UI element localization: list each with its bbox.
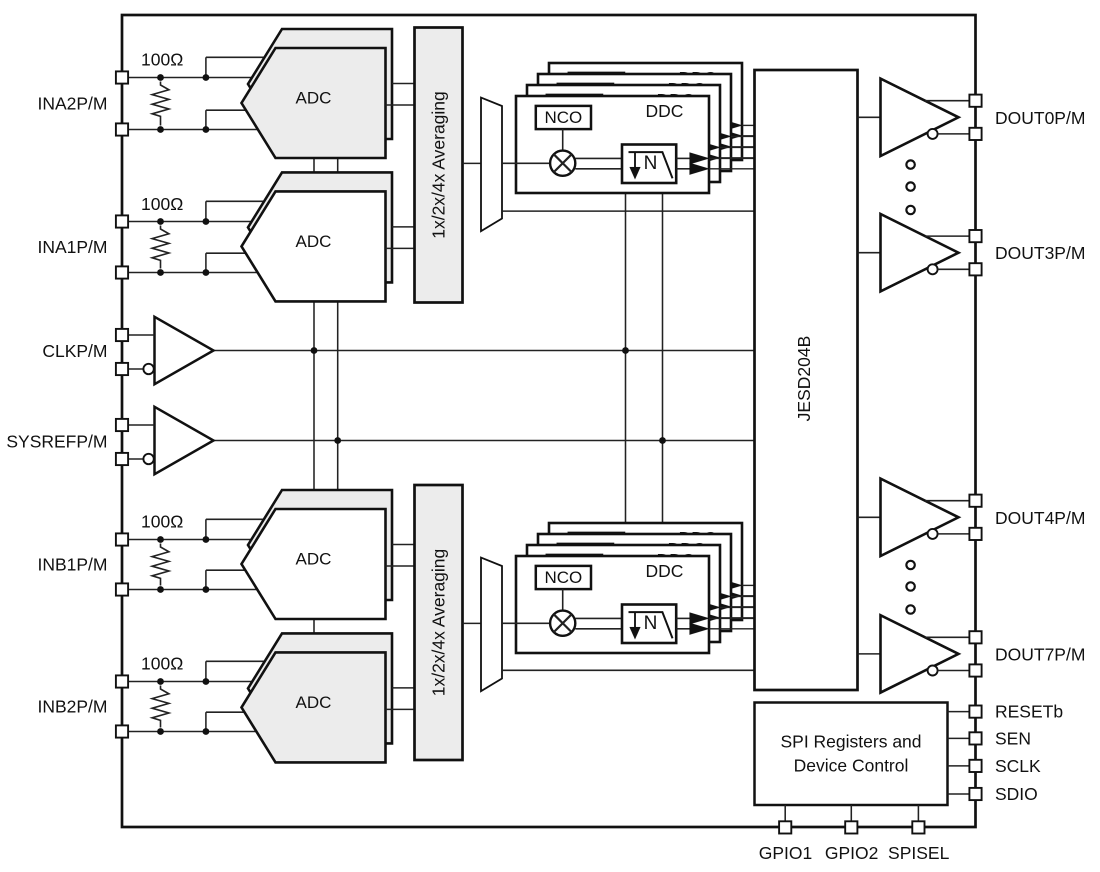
wire JESD204B to driver DOUT7: [858, 653, 881, 655]
ADC B2 interleaved (back card): [248, 633, 392, 743]
net label GPIO1: [759, 843, 813, 863]
wire ADC A1 back output to averaging: [392, 83, 415, 85]
ADC A1 (front card): [242, 48, 386, 158]
svg-text:DDC: DDC: [646, 101, 684, 121]
wire INA1M branch to interleaved ADC: [206, 253, 250, 272]
net label SEN: [995, 728, 1031, 748]
SPI registers and device control block: [755, 703, 948, 806]
wire INB1M branch to interleaved ADC: [206, 570, 250, 589]
driver DOUT3: [881, 214, 959, 291]
wire JESD204B to driver DOUT3: [858, 252, 881, 254]
wire INB1P branch to interleaved ADC: [206, 519, 266, 539]
wire ADC B1 front output to averaging: [386, 565, 415, 567]
pin INB1P: [116, 533, 128, 545]
value label 100Ω INB1: [141, 512, 183, 532]
svg-text:GPIO2: GPIO2: [825, 843, 879, 863]
svg-text:INA2P/M: INA2P/M: [37, 94, 107, 114]
svg-text:100Ω: 100Ω: [141, 654, 183, 674]
net label DOUT0P/M: [995, 108, 1085, 128]
svg-text:SDIO: SDIO: [995, 784, 1038, 804]
svg-text:RESETb: RESETb: [995, 702, 1063, 722]
inversion bubble SYSREFM: [143, 454, 153, 464]
wire JESD204B to driver DOUT4: [858, 516, 881, 518]
svg-text:1x/2x/4x Averaging: 1x/2x/4x Averaging: [429, 549, 449, 697]
pin SEN: [969, 732, 981, 744]
wire INB1M input: [122, 589, 266, 591]
wire SPISEL: [917, 805, 919, 821]
svg-text:1x/2x/4x Averaging: 1x/2x/4x Averaging: [429, 91, 449, 239]
net label SYSREFP/M: [6, 431, 107, 451]
resistor 100Ω INB2 termination: [152, 686, 169, 728]
pin INA1M: [116, 266, 128, 278]
svg-text:INA1P/M: INA1P/M: [37, 237, 107, 257]
net label CLKP/M: [42, 341, 107, 361]
junction dot INA2P at branch: [203, 74, 210, 81]
DDC A channel 2 card: [538, 74, 755, 171]
net label DOUT4P/M: [995, 508, 1085, 528]
buffer SYSREF: [155, 407, 214, 474]
DDC B channel 3 card: [527, 545, 755, 642]
wire DOUT3P output: [925, 235, 970, 237]
junction dot INA2M at branch: [203, 126, 210, 133]
DDC B channel 4 card: [502, 556, 755, 653]
junction dot CLK x=625.5: [622, 347, 629, 354]
wire ADC A2 back output to averaging: [392, 226, 415, 228]
wire ADC A1 front output to averaging: [386, 104, 415, 106]
svg-text:ADC: ADC: [296, 550, 332, 569]
wire CLKM input: [122, 368, 143, 370]
svg-text:ADC: ADC: [296, 89, 332, 108]
junction dot INB2M at branch: [203, 728, 210, 735]
net label INA1P/M: [37, 237, 107, 257]
wire mux A bypass to JESD204B: [502, 210, 755, 212]
pin CLKM: [116, 363, 128, 375]
pin RESETb: [969, 706, 981, 718]
wire ADC A2 front output to averaging: [386, 247, 415, 249]
net label DOUT7P/M: [995, 644, 1085, 664]
pin SYSREFP: [116, 419, 128, 431]
svg-text:GPIO1: GPIO1: [759, 843, 813, 863]
ADC A2 (front card): [242, 191, 386, 301]
pin DOUT7M: [969, 664, 981, 676]
wire DOUT0M output: [937, 133, 969, 135]
net label RESETb: [995, 702, 1063, 722]
DDC A channel 4 card: [502, 96, 755, 193]
svg-text:SPISEL: SPISEL: [888, 843, 950, 863]
inversion bubble CLKM: [143, 364, 153, 374]
junction dot INA1M at branch: [203, 269, 210, 276]
ADC A2 interleaved (back card): [248, 172, 392, 282]
svg-text:ADC: ADC: [296, 693, 332, 712]
ellipsis dots DOUT0-DOUT3: [906, 160, 914, 214]
wire GPIO2: [850, 805, 852, 821]
wire CLK feed vertical x=314 (ADCA1-ADCA2 gap): [313, 157, 315, 174]
pin SDIO: [969, 788, 981, 800]
wire INA1P input: [122, 221, 266, 223]
wire SYSREF net horizontal: [214, 440, 755, 442]
wire INA1M input: [122, 272, 266, 274]
wire ADC B2 front output to averaging: [386, 708, 415, 710]
net label INA2P/M: [37, 94, 107, 114]
svg-text:SPI Registers and: SPI Registers and: [780, 732, 921, 752]
svg-text:DOUT7P/M: DOUT7P/M: [995, 644, 1085, 664]
DDC B channel 1 card: [549, 523, 755, 620]
junction dot INB1M at resistor: [157, 586, 164, 593]
pin DOUT3M: [969, 263, 981, 275]
averaging block B: [415, 485, 463, 760]
inversion bubble DOUT0M: [928, 129, 938, 139]
svg-text:DOUT3P/M: DOUT3P/M: [995, 243, 1085, 263]
svg-text:100Ω: 100Ω: [141, 194, 183, 214]
wire DOUT7P output: [925, 636, 970, 638]
wire CLKP input: [122, 334, 155, 336]
svg-text:NCO: NCO: [545, 568, 583, 587]
junction dot INA2M at resistor: [157, 126, 164, 133]
net label GPIO2: [825, 843, 879, 863]
wire RESETb: [948, 711, 970, 713]
junction dot SYSREF x=337.7: [334, 437, 341, 444]
wire INB2M branch to interleaved ADC: [206, 712, 250, 731]
inversion bubble DOUT7M: [928, 666, 938, 676]
svg-text:DOUT4P/M: DOUT4P/M: [995, 508, 1085, 528]
wire INA2M input: [122, 129, 266, 131]
driver DOUT7: [881, 615, 959, 692]
wire INB2P input: [122, 681, 266, 683]
junction dot INB1P at branch: [203, 536, 210, 543]
ADC A1 interleaved (back card): [248, 29, 392, 139]
pin DOUT0M: [969, 128, 981, 140]
wire DOUT4P output: [925, 500, 970, 502]
net label SCLK: [995, 756, 1041, 776]
wire DOUT7M output: [937, 670, 969, 672]
junction dot CLK x=314: [311, 347, 318, 354]
ellipsis dots DOUT4-DOUT7: [906, 561, 914, 614]
pin GPIO2: [845, 821, 857, 833]
ADC B1 interleaved (back card): [248, 490, 392, 600]
wire CLK feed vertical x=314 (ADCB1-ADCB2 gap): [313, 618, 315, 635]
wire SDIO: [948, 793, 970, 795]
wire DOUT0P output: [925, 100, 970, 102]
wire INA2P input: [122, 77, 266, 79]
svg-text:SYSREFP/M: SYSREFP/M: [6, 431, 107, 451]
JESD204B block U-JESD: [755, 70, 858, 690]
wire INB1P input: [122, 539, 266, 541]
pin INA2M: [116, 123, 128, 135]
junction dot INB2P at resistor: [157, 678, 164, 685]
junction dot INA1P at resistor: [157, 218, 164, 225]
svg-text:DDC: DDC: [646, 561, 684, 581]
junction dot SYSREF x=662.5: [659, 437, 666, 444]
wire CLK feed vertical x=337.7 (ADCA1-ADCA2 gap): [337, 157, 339, 174]
wire INB2M input: [122, 731, 266, 733]
buffer CLK: [155, 317, 214, 384]
net label INB2P/M: [37, 697, 107, 717]
value label 100Ω INA2: [141, 50, 183, 70]
pin SCLK: [969, 760, 981, 772]
mux B: [481, 558, 502, 692]
pin INB2P: [116, 675, 128, 687]
mux A: [481, 98, 502, 232]
wire SYSREFP input: [122, 424, 155, 426]
pin INB2M: [116, 725, 128, 737]
wire averaging A to mux: [463, 162, 482, 164]
pin INB1M: [116, 583, 128, 595]
svg-text:SEN: SEN: [995, 728, 1031, 748]
junction dot INA1P at branch: [203, 218, 210, 225]
pin DOUT0P: [969, 95, 981, 107]
wire ADC B1 back output to averaging: [392, 544, 415, 546]
inversion bubble DOUT4M: [928, 529, 938, 539]
junction dot INA2P at resistor: [157, 74, 164, 81]
junction dot INB2M at resistor: [157, 728, 164, 735]
wire SYSREF feed vertical x=337.7 (ADCA2 to ADCB1): [337, 301, 339, 492]
wire mux B bypass to JESD204B: [502, 669, 755, 671]
value label 100Ω INA1: [141, 194, 183, 214]
pin GPIO1: [779, 821, 791, 833]
resistor 100Ω INA2 termination: [152, 82, 169, 126]
chip boundary box: [122, 15, 976, 827]
DDC B channel 2 card: [538, 534, 755, 631]
wire DOUT4M output: [937, 533, 969, 535]
resistor 100Ω INB1 termination: [152, 544, 169, 586]
DDC A channel 1 card: [549, 63, 755, 160]
pin DOUT4P: [969, 495, 981, 507]
junction dot INB1P at resistor: [157, 536, 164, 543]
wire INA2P branch to interleaved ADC: [206, 57, 266, 77]
net label INB1P/M: [37, 555, 107, 575]
net label DOUT3P/M: [995, 243, 1085, 263]
wire CLK vertical x=625.5 (DDC A to DDC B): [625, 192, 627, 560]
junction dot INB1M at branch: [203, 586, 210, 593]
pin DOUT4M: [969, 528, 981, 540]
wire SYSREFM input: [122, 458, 143, 460]
resistor 100Ω INA1 termination: [152, 226, 169, 269]
wire SCLK: [948, 765, 970, 767]
driver DOUT0: [881, 79, 959, 156]
svg-text:NCO: NCO: [545, 108, 583, 127]
driver DOUT4: [881, 479, 959, 556]
averaging block A: [415, 28, 463, 303]
ADC B2 (front card): [242, 652, 386, 762]
pin SPISEL: [912, 821, 924, 833]
svg-text:CLKP/M: CLKP/M: [42, 341, 107, 361]
svg-text:JESD204B: JESD204B: [794, 336, 814, 422]
ADC B1 (front card): [242, 509, 386, 619]
wire SEN: [948, 737, 970, 739]
svg-text:SCLK: SCLK: [995, 756, 1041, 776]
net label SPISEL: [888, 843, 950, 863]
svg-text:ADC: ADC: [296, 232, 332, 251]
pin DOUT3P: [969, 230, 981, 242]
pin SYSREFM: [116, 453, 128, 465]
svg-text:INB1P/M: INB1P/M: [37, 555, 107, 575]
wire INA2M branch to interleaved ADC: [206, 110, 250, 129]
svg-text:DOUT0P/M: DOUT0P/M: [995, 108, 1085, 128]
inversion bubble DOUT3M: [928, 264, 938, 274]
wire CLK net horizontal: [214, 350, 755, 352]
wire SYSREF vertical x=662.5 (DDC A to DDC B): [662, 192, 664, 560]
pin DOUT7P: [969, 631, 981, 643]
wire averaging B to mux: [463, 622, 482, 624]
svg-text:100Ω: 100Ω: [141, 50, 183, 70]
svg-text:N: N: [644, 613, 658, 634]
wire CLK feed vertical x=314 (ADCA2 to ADCB1): [313, 301, 315, 492]
junction dot INA1M at resistor: [157, 269, 164, 276]
wire INA1P branch to interleaved ADC: [206, 201, 266, 221]
pin INA1P: [116, 215, 128, 227]
net label SDIO: [995, 784, 1038, 804]
svg-text:INB2P/M: INB2P/M: [37, 697, 107, 717]
wire JESD204B to driver DOUT0: [858, 116, 881, 118]
junction dot INB2P at branch: [203, 678, 210, 685]
pin CLKP: [116, 329, 128, 341]
DDC A channel 3 card: [527, 85, 755, 182]
pin INA2P: [116, 71, 128, 83]
svg-text:Device Control: Device Control: [794, 756, 909, 776]
wire ADC B2 back output to averaging: [392, 687, 415, 689]
svg-text:N: N: [644, 153, 658, 174]
value label 100Ω INB2: [141, 654, 183, 674]
svg-text:100Ω: 100Ω: [141, 512, 183, 532]
wire GPIO1: [784, 805, 786, 821]
wire DOUT3M output: [937, 268, 969, 270]
wire INB2P branch to interleaved ADC: [206, 661, 266, 681]
